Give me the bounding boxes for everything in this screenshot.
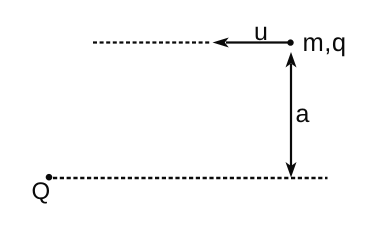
svg-text:m,q: m,q — [303, 29, 347, 57]
svg-text:Q: Q — [32, 178, 51, 205]
svg-text:a: a — [296, 100, 310, 128]
svg-text:u: u — [254, 18, 268, 46]
